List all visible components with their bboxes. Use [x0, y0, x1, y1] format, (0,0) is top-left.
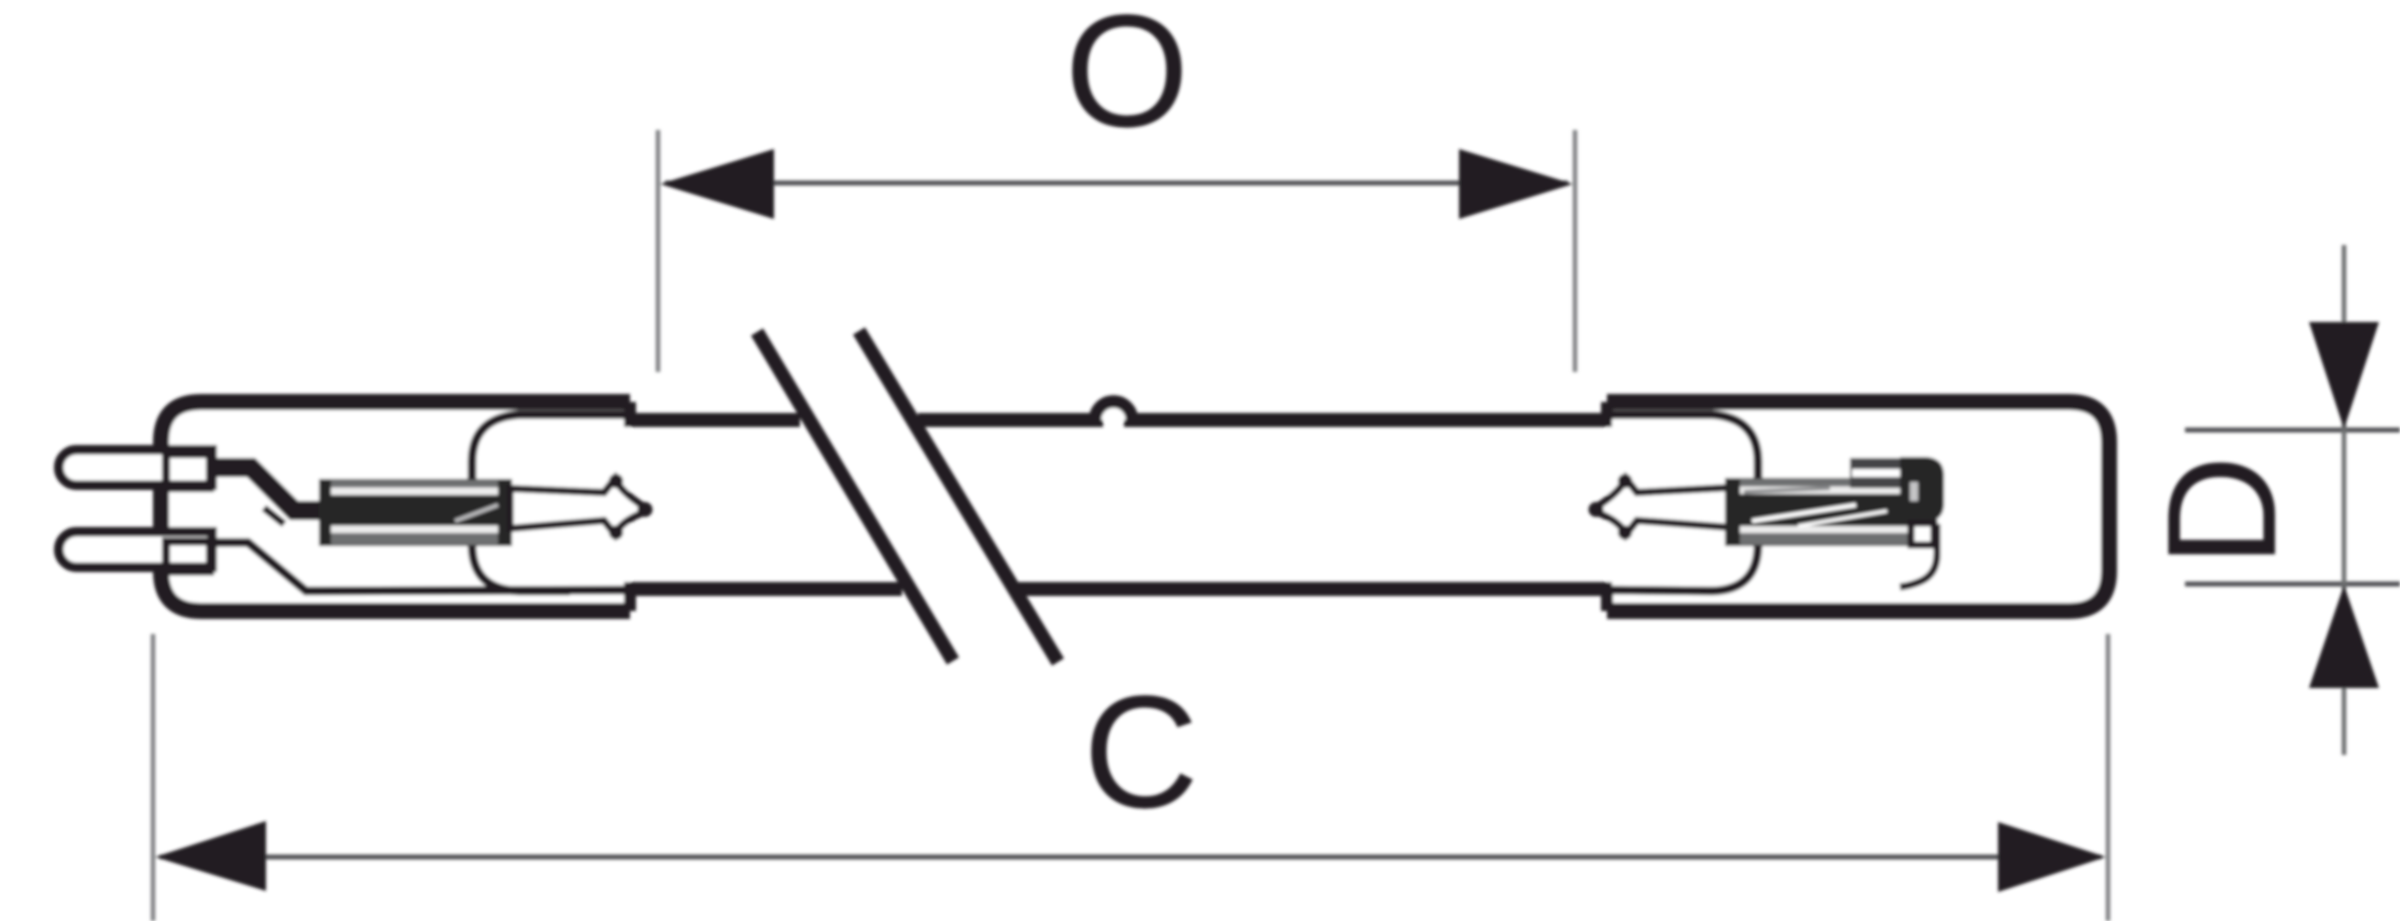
- svg-text:D: D: [2135, 455, 2308, 567]
- svg-text:C: C: [1083, 662, 1199, 841]
- svg-text:O: O: [1065, 0, 1189, 160]
